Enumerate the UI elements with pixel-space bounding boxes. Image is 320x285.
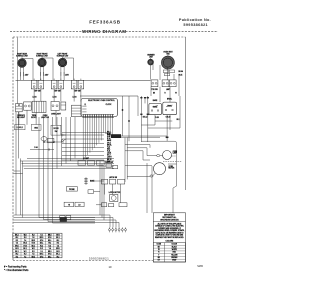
warmer surface unit SU4 [141, 58, 161, 65]
svg-text:HI LIMIT: HI LIMIT [83, 158, 89, 160]
surface unit SU1 [7, 57, 38, 67]
svg-text:YELLOW: YELLOW [171, 254, 178, 256]
label plate left [15, 125, 42, 131]
wire feed verticals right of connector [125, 138, 127, 182]
svg-text:R-3: R-3 [40, 248, 43, 250]
svg-text:R-30: R-30 [155, 117, 159, 119]
svg-text:CLOCK: CLOCK [106, 104, 113, 106]
svg-text:PROBE: PROBE [69, 189, 75, 191]
svg-text:BR-5: BR-5 [48, 251, 52, 253]
svg-text:GY-6: GY-6 [40, 240, 44, 242]
diagram border top dashed [13, 36, 186, 38]
svg-text:Y-4: Y-4 [57, 245, 59, 247]
svg-text:UNIT: UNIT [149, 57, 153, 59]
labels right switch row [151, 89, 170, 91]
svg-text:L1 N L2: L1 N L2 [17, 127, 23, 129]
svg-text:INF SW: INF SW [35, 90, 41, 92]
ribbon cable from control [83, 118, 112, 160]
taps into control from terminal strip [82, 104, 86, 112]
surface unit SU3 [47, 57, 78, 67]
svg-text:W-2: W-2 [16, 237, 19, 239]
dashed stub near motor [163, 161, 182, 164]
switch block right S7 [162, 80, 169, 87]
svg-text:BROIL: BROIL [107, 144, 112, 146]
svg-text:GY: GY [158, 260, 160, 262]
svg-text:V-31: V-31 [107, 151, 110, 153]
electronic oven control U1 [81, 99, 117, 117]
svg-text:GY-6: GY-6 [23, 245, 27, 247]
svg-text:R-3: R-3 [32, 234, 35, 236]
svg-text:R-3: R-3 [24, 254, 27, 256]
svg-text:BK-1: BK-1 [15, 234, 19, 236]
svg-text:BK-8: BK-8 [107, 132, 111, 134]
wires to lamps and motor [121, 136, 167, 166]
svg-text:BK-64: BK-64 [179, 71, 184, 73]
svg-text:L1: L1 [18, 105, 20, 107]
infinite switch S3 [71, 79, 83, 89]
wire taps mid-left [30, 141, 64, 150]
vertical harness comb [39, 117, 75, 223]
infinite switch S2 [51, 79, 63, 89]
svg-text:R-3: R-3 [32, 251, 35, 253]
convection motor M2 [127, 163, 175, 177]
svg-text:OVEN VENT: OVEN VENT [163, 51, 172, 53]
svg-text:TOD SW: TOD SW [151, 89, 158, 91]
label surface unit 3 [57, 53, 69, 57]
connector strip below control [82, 114, 114, 117]
latch motor M3 [110, 195, 118, 202]
diagram border left dashed [12, 37, 14, 261]
svg-text:W-2: W-2 [177, 119, 180, 121]
element symbol E1 [84, 177, 94, 184]
component row mid lower [78, 158, 104, 165]
svg-text:BR-5: BR-5 [48, 234, 52, 236]
svg-text:L1 H2: L1 H2 [72, 97, 76, 99]
svg-text:BROWN: BROWN [171, 257, 177, 259]
svg-text:W-2: W-2 [57, 256, 60, 258]
svg-text:GY-6: GY-6 [48, 237, 52, 239]
svg-text:BK: BK [153, 93, 155, 95]
wire drops from bus mid [122, 96, 130, 141]
labels below relays [143, 116, 180, 121]
svg-text:WHITE: WHITE [172, 249, 177, 251]
svg-text:R-3: R-3 [16, 240, 19, 242]
svg-text:GY-6: GY-6 [40, 256, 44, 258]
wire nested horizontals left-mid [20, 158, 114, 168]
wire main bus L1 horizontal [16, 79, 151, 81]
wire element tap [91, 180, 104, 182]
svg-text:ELECTRONIC OVEN CONTROL: ELECTRONIC OVEN CONTROL [88, 100, 114, 102]
wire surface unit 2 leads [40, 58, 53, 80]
wire right loop vertical to notes box [141, 115, 176, 213]
component boxes bottom mid [60, 187, 84, 220]
svg-text:W-2: W-2 [48, 243, 51, 245]
latch wiring row [96, 203, 127, 207]
svg-text:BK-12: BK-12 [143, 116, 148, 118]
surface unit SU2 [27, 57, 58, 67]
svg-text:W-2: W-2 [40, 245, 43, 247]
wires right cluster [138, 65, 179, 116]
svg-text:LIGHT: LIGHT [107, 156, 112, 158]
svg-text:S165: S165 [197, 265, 203, 268]
door switch cluster [105, 162, 117, 169]
svg-text:BLOCK: BLOCK [31, 117, 37, 119]
svg-text:R-3: R-3 [57, 243, 60, 245]
terminal strip bottom [109, 227, 127, 232]
wire switch S3 drops [74, 89, 81, 102]
label surface unit 2 [36, 53, 48, 57]
svg-text:* = Non-Illustrated Parts: * = Non-Illustrated Parts [4, 269, 29, 272]
svg-text:BK-1: BK-1 [56, 237, 60, 239]
svg-text:BK-1: BK-1 [15, 251, 19, 253]
fuse block F1 [24, 102, 32, 110]
wires latch verticals [105, 163, 153, 213]
wire switch S2 drops [54, 89, 61, 102]
svg-text:5995386821: 5995386821 [89, 256, 109, 260]
svg-text:BR-5: BR-5 [40, 254, 44, 256]
svg-text:Y-4: Y-4 [32, 237, 34, 239]
svg-text:L1 H2: L1 H2 [32, 97, 36, 99]
svg-text:# = Fast-moving Parts: # = Fast-moving Parts [4, 265, 27, 268]
svg-text:BK-1: BK-1 [56, 254, 60, 256]
page fold dashed line [10, 31, 218, 33]
svg-text:GY-6: GY-6 [15, 248, 19, 250]
svg-text:SW: SW [55, 131, 58, 133]
svg-text:GY-6: GY-6 [32, 243, 36, 245]
notes box [153, 213, 185, 262]
door latch switch row [101, 176, 124, 184]
svg-text:R-3: R-3 [24, 237, 27, 239]
svg-text:MOTOR: MOTOR [169, 168, 176, 170]
svg-text:FEF336ASB: FEF336ASB [89, 19, 121, 24]
wire main bus N horizontal [80, 95, 138, 97]
component cluster mid-left [41, 137, 54, 143]
switch block S5 [61, 102, 66, 110]
svg-text:R-3: R-3 [16, 256, 19, 258]
label surface unit 1 [16, 52, 28, 57]
svg-text:Publication No.: Publication No. [179, 18, 211, 22]
svg-text:240V: 240V [45, 74, 49, 76]
svg-text:BR-5: BR-5 [40, 237, 44, 239]
svg-text:L1 H2: L1 H2 [52, 97, 56, 99]
wire warmer leads [151, 64, 153, 80]
switch block S4 [51, 102, 59, 111]
svg-text:W-2: W-2 [32, 248, 35, 250]
svg-text:Y-4: Y-4 [32, 254, 34, 256]
junction connector bottom-left [60, 217, 67, 221]
svg-text:BR-5: BR-5 [32, 256, 36, 258]
svg-text:P-64: P-64 [34, 147, 37, 149]
switch block right S6 [151, 80, 158, 87]
wire switch S1 drops [34, 89, 41, 102]
junction ticks on feed lines [141, 97, 149, 115]
relay K2 [163, 102, 177, 115]
svg-text:240V: 240V [25, 74, 29, 76]
svg-text:BR-5: BR-5 [56, 248, 60, 250]
diagram border bottom dashed [13, 260, 154, 262]
svg-text:BR-19: BR-19 [107, 159, 112, 161]
svg-text:MDL: MDL [107, 148, 110, 150]
switch block right S8 [169, 80, 176, 87]
junction terminals mid [61, 134, 66, 142]
svg-text:W-2: W-2 [24, 251, 27, 253]
relay K1 [149, 103, 162, 114]
svg-text:R-14: R-14 [107, 138, 110, 140]
connector row below vent fan [163, 70, 183, 76]
svg-text:GY-6: GY-6 [48, 254, 52, 256]
diagram border right solid [185, 37, 187, 190]
terminal block TB1 [16, 104, 23, 112]
svg-text:Y-4: Y-4 [24, 256, 26, 258]
labels component row [17, 114, 61, 120]
svg-text:BK-1: BK-1 [32, 245, 36, 247]
label relay cluster [153, 99, 172, 102]
wire stubs from left border [14, 171, 23, 173]
svg-text:IND LIGHT: IND LIGHT [17, 117, 25, 119]
svg-text:INF SW: INF SW [75, 90, 81, 92]
svg-text:240V: 240V [65, 74, 69, 76]
svg-text:BR-5: BR-5 [23, 243, 27, 245]
svg-text:Y-4: Y-4 [24, 240, 26, 242]
wire surface unit 1 leads [20, 59, 33, 81]
labels under switches [32, 97, 76, 99]
svg-text:R-3: R-3 [48, 245, 51, 247]
svg-text:OR-5: OR-5 [107, 142, 111, 144]
svg-text:BK-1: BK-1 [40, 243, 44, 245]
wire verticals mid-bottom [100, 161, 104, 220]
svg-text:L1: L1 [85, 104, 87, 106]
wire code labels right [153, 93, 177, 95]
wires to plates [19, 110, 56, 125]
svg-text:GROUNDING DEVICES: GROUNDING DEVICES [160, 219, 179, 221]
svg-text:5995386821: 5995386821 [183, 23, 208, 27]
ribbon connector dark [111, 135, 121, 138]
svg-text:GY-6: GY-6 [56, 251, 60, 253]
svg-text:Y-4: Y-4 [40, 251, 42, 253]
relay inner labels [153, 105, 172, 108]
wire interconnect top-left [16, 38, 64, 216]
wire left verticals to bottom loop [20, 158, 22, 217]
svg-text:BK-1: BK-1 [23, 248, 27, 250]
label oven vent fan [163, 51, 172, 55]
svg-text:W-2: W-2 [57, 240, 60, 242]
label plate mid [51, 125, 61, 135]
svg-text:INF SW: INF SW [55, 90, 61, 92]
svg-text:Y: Y [158, 254, 159, 256]
wire corners comb to bottom [39, 218, 95, 224]
svg-text:LEFT FRONT: LEFT FRONT [58, 53, 68, 55]
svg-text:BROIL: BROIL [167, 99, 172, 101]
svg-text:OR-40: OR-40 [166, 116, 171, 118]
terminal strip TB2 [72, 105, 82, 117]
color code table [153, 243, 185, 262]
svg-text:COLORS: COLORS [166, 240, 174, 242]
wire surface unit 3 leads [61, 58, 74, 80]
svg-text:Y-4: Y-4 [49, 248, 51, 250]
wires relay cluster [141, 96, 180, 142]
oven vent fan M1 [145, 55, 190, 70]
svg-text:DLB: DLB [107, 136, 110, 138]
svg-text:BR-5: BR-5 [15, 245, 19, 247]
oven light DS2 [147, 151, 177, 160]
legend table [13, 233, 62, 258]
junction tick right [166, 137, 168, 138]
svg-text:W-2: W-2 [16, 254, 19, 256]
svg-text:W-2: W-2 [24, 234, 27, 236]
svg-text:GY-7: GY-7 [107, 155, 111, 157]
svg-text:OVEN: OVEN [173, 151, 177, 153]
svg-text:Y-22: Y-22 [107, 147, 110, 149]
svg-text:GY-6: GY-6 [56, 234, 60, 236]
wire branches with labels mid [62, 132, 112, 163]
wire bottom loop horizontals [14, 215, 120, 227]
svg-text:BR-5: BR-5 [32, 240, 36, 242]
relay internal contacts [151, 105, 173, 111]
label warmer unit [147, 54, 155, 59]
svg-text:W-10: W-10 [107, 134, 111, 136]
infinite switch S1 [31, 79, 43, 89]
relay box small RB1 [88, 190, 100, 194]
svg-text:LIMIT: LIMIT [166, 89, 170, 91]
svg-text:BK-1: BK-1 [48, 256, 52, 258]
multi-pin connector P1 [32, 101, 46, 112]
svg-text:BK-1: BK-1 [48, 240, 52, 242]
svg-text:Y-4: Y-4 [16, 243, 18, 245]
svg-text:RIGHT FRONT: RIGHT FRONT [37, 53, 48, 55]
